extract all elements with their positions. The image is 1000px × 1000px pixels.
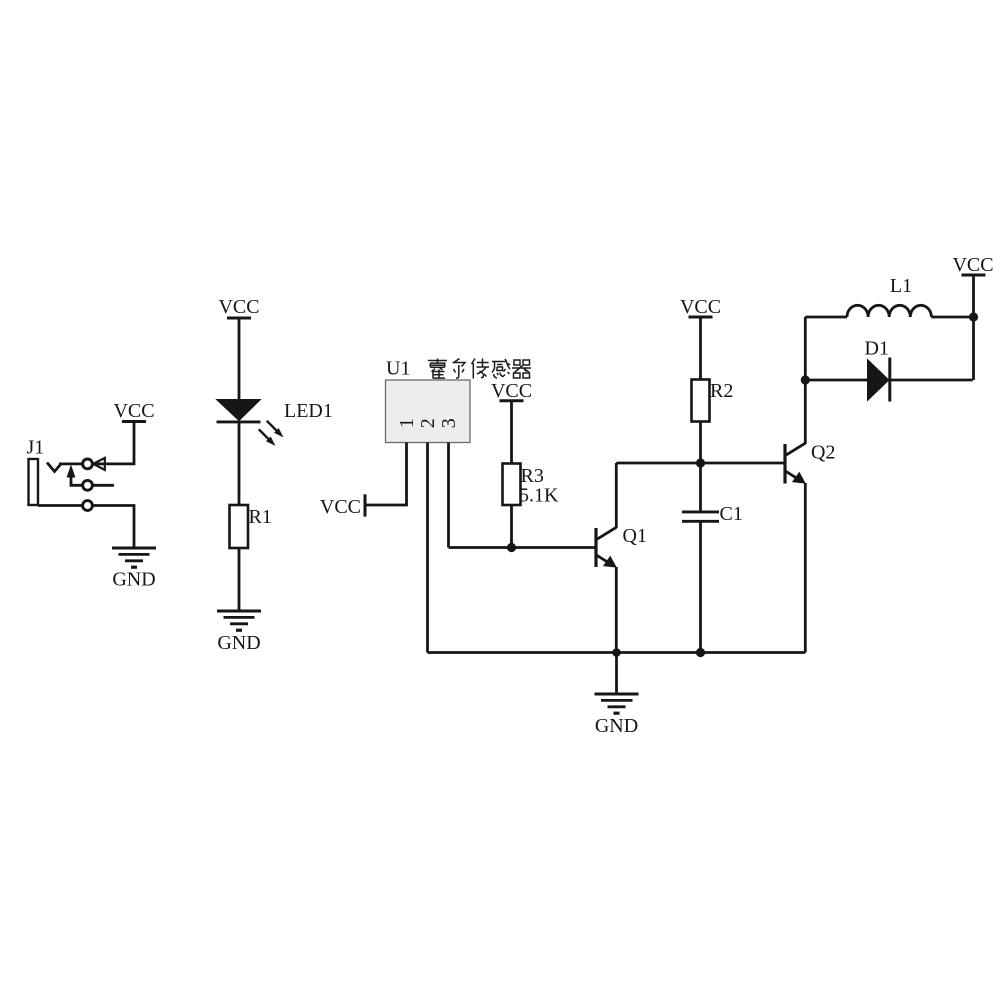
svg-text:1: 1 (396, 418, 418, 428)
svg-text:J1: J1 (27, 437, 45, 459)
svg-text:VCC: VCC (680, 296, 721, 318)
svg-text:Q1: Q1 (623, 525, 647, 547)
svg-text:R3: R3 (521, 465, 544, 487)
svg-text:2: 2 (417, 418, 439, 428)
svg-text:VCC: VCC (218, 296, 259, 318)
svg-text:C1: C1 (720, 503, 743, 525)
svg-text:5.1K: 5.1K (519, 485, 559, 507)
svg-text:GND: GND (217, 632, 260, 654)
svg-text:R1: R1 (249, 506, 272, 528)
svg-text:VCC: VCC (952, 254, 993, 276)
svg-text:GND: GND (112, 569, 155, 591)
svg-text:VCC: VCC (113, 400, 154, 422)
svg-text:LED1: LED1 (284, 400, 333, 422)
svg-text:3: 3 (438, 418, 460, 428)
svg-text:VCC: VCC (491, 380, 532, 402)
svg-text:GND: GND (595, 715, 638, 737)
svg-text:Q2: Q2 (811, 442, 835, 464)
svg-text:D1: D1 (865, 337, 889, 359)
svg-text:VCC: VCC (320, 496, 361, 518)
svg-text:U1: U1 (386, 358, 410, 380)
svg-text:R2: R2 (710, 380, 733, 402)
svg-text:L1: L1 (890, 275, 912, 297)
